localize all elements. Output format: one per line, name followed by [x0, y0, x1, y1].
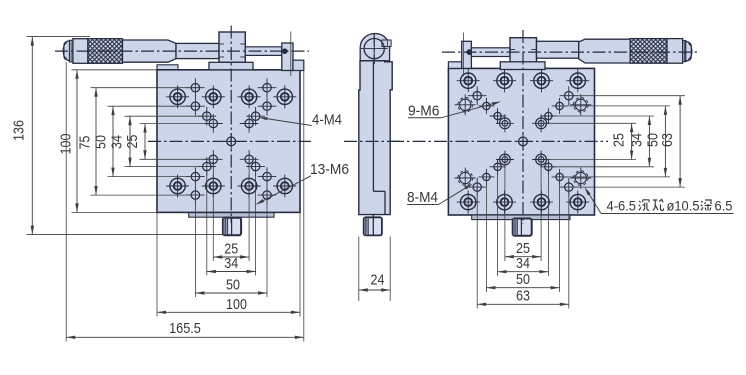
- svg-text:25: 25: [611, 133, 628, 147]
- left bottom extension lines: [66, 62, 304, 342]
- right view vertical centerline: [522, 30, 524, 224]
- right micrometer thimble: [667, 39, 683, 64]
- left micrometer mount block: [219, 32, 245, 62]
- left micrometer axis centerline: [55, 50, 309, 52]
- middle view lug centerline: [373, 33, 375, 64]
- svg-text:50: 50: [516, 271, 530, 288]
- dim 50 left: [93, 106, 115, 176]
- right spindle anchor bracket: [462, 33, 472, 77]
- svg-text:100: 100: [226, 296, 247, 313]
- dim 34 bottom-right: [498, 255, 549, 273]
- middle view knob: [364, 215, 382, 236]
- left view horizontal centerline: [148, 140, 311, 142]
- dim 34 right: [628, 116, 651, 167]
- dim 25 bottom-left: [213, 241, 249, 259]
- right view bottom knob: [513, 219, 532, 236]
- svg-text:63: 63: [516, 288, 530, 305]
- dim 24 ext: [359, 237, 390, 302]
- svg-text:4-6.5: 4-6.5: [607, 199, 637, 214]
- left spindle anchor bracket: [282, 32, 293, 77]
- dim 63 right: [659, 96, 682, 187]
- left view bottom lip: [189, 212, 274, 217]
- left view hole pattern: [166, 78, 296, 204]
- label 8-M4: [407, 184, 473, 207]
- dim 24: [359, 272, 390, 292]
- middle view lug circle: [361, 35, 388, 62]
- right micrometer axis centerline: [442, 51, 700, 53]
- dim 25 left: [124, 124, 147, 160]
- left micrometer base plate: [209, 62, 253, 70]
- dim 75: [77, 88, 98, 195]
- svg-text:34: 34: [628, 133, 645, 147]
- dim 63 bottom-right: [477, 288, 569, 307]
- left view body: [157, 70, 300, 213]
- dim 50 bottom-left: [195, 277, 267, 295]
- left view center hole: [224, 134, 239, 149]
- dim 34 bottom-left: [207, 255, 256, 273]
- right micrometer base plate: [500, 62, 545, 70]
- right view center hole: [516, 134, 531, 149]
- left top-right boss: [293, 60, 304, 70]
- right micrometer mount block: [510, 38, 537, 68]
- dim 25 right: [611, 123, 634, 159]
- right micrometer barrel: [579, 39, 631, 63]
- svg-text:34: 34: [109, 135, 126, 149]
- dim 100 bottom: [157, 296, 300, 314]
- dim 136 extension lines: [27, 37, 231, 235]
- svg-text:50: 50: [93, 135, 110, 149]
- left micrometer knurl: [88, 39, 123, 64]
- middle view lug: [360, 34, 389, 61]
- middle view internal step: [373, 62, 385, 215]
- right view horizontal centerline: [391, 140, 608, 142]
- left view top-left lip: [157, 65, 178, 70]
- label 4-M4: [259, 112, 343, 129]
- svg-text:50: 50: [226, 277, 240, 294]
- dim 25 bottom-right: [505, 240, 541, 258]
- svg-text:13-M6: 13-M6: [310, 161, 349, 178]
- right micrometer cap: [683, 41, 692, 62]
- right top-left boss: [448, 62, 461, 69]
- svg-text:63: 63: [659, 133, 676, 147]
- dim 34 left: [109, 116, 132, 166]
- svg-text:34: 34: [516, 255, 530, 272]
- svg-text:4-M4: 4-M4: [312, 112, 342, 129]
- left view vertical centerline: [230, 26, 232, 224]
- left micrometer spindle: [245, 47, 281, 56]
- svg-text:34: 34: [224, 255, 238, 272]
- right chain extension lines: [546, 96, 685, 187]
- svg-text:24: 24: [371, 272, 385, 289]
- left micrometer thimble: [73, 39, 88, 64]
- right micrometer knurl: [630, 39, 667, 64]
- dim 165.5 bottom: [66, 320, 304, 339]
- svg-text:136: 136: [11, 120, 28, 141]
- left micrometer barrel: [123, 40, 177, 62]
- left micrometer sleeve: [176, 43, 219, 58]
- dim 50 right: [644, 106, 667, 177]
- right bottom extension lines: [477, 160, 569, 309]
- right view bottom lip: [472, 215, 570, 220]
- svg-text:ø10.5: ø10.5: [667, 199, 700, 214]
- right micrometer spindle: [471, 48, 510, 57]
- right view body: [448, 68, 594, 215]
- svg-text:165.5: 165.5: [169, 320, 201, 337]
- dim 50 bottom-right: [486, 271, 559, 289]
- svg-text:9-M6: 9-M6: [408, 103, 440, 120]
- middle view horizontal centerline: [344, 140, 404, 142]
- left micrometer cap: [63, 40, 73, 62]
- left view bottom knob: [223, 218, 241, 236]
- svg-text:25: 25: [124, 135, 141, 149]
- middle view column: [359, 61, 392, 215]
- dim 100 left: [58, 70, 79, 213]
- dim 34 left ext: [125, 116, 211, 166]
- right micrometer sleeve: [537, 41, 579, 58]
- svg-text:75: 75: [77, 136, 94, 150]
- dim 100 left ext: [72, 70, 158, 213]
- label 4-6.5 counterbore note: [585, 187, 734, 214]
- dim 136: [11, 37, 35, 235]
- svg-text:8-M4: 8-M4: [407, 189, 438, 206]
- dim 75 ext: [91, 88, 200, 195]
- middle view lug screw: [382, 40, 391, 47]
- dim 25 left ext: [140, 124, 218, 160]
- label 13-M6: [255, 161, 349, 205]
- label 9-M6: [408, 102, 501, 120]
- right view hole pattern: [455, 69, 592, 213]
- svg-text:6.5: 6.5: [715, 199, 733, 214]
- dim 50 left ext: [108, 106, 200, 176]
